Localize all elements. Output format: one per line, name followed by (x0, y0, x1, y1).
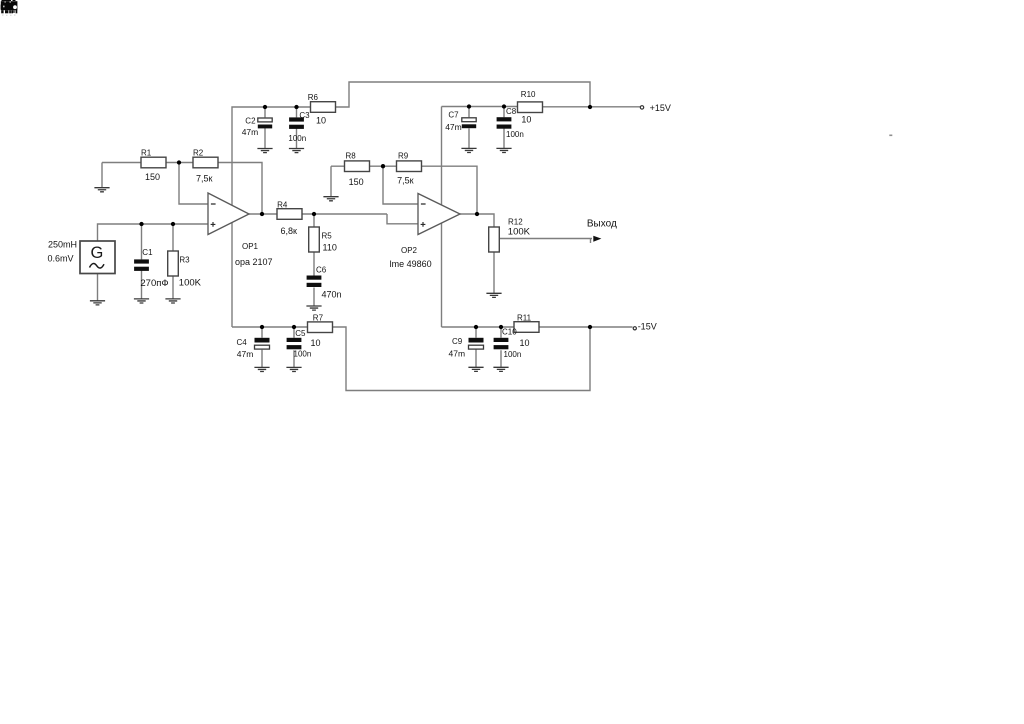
svg-text:G: G (91, 244, 104, 262)
svg-text:250mH: 250mH (48, 239, 77, 249)
svg-text:Выход: Выход (587, 218, 617, 229)
svg-text:47m: 47m (242, 127, 259, 137)
svg-text:R12: R12 (508, 218, 523, 227)
svg-text:100n: 100n (504, 350, 522, 359)
svg-text:R3: R3 (179, 256, 190, 265)
svg-text:10: 10 (520, 338, 530, 348)
svg-text:10: 10 (521, 115, 531, 125)
svg-text:-15V: -15V (638, 321, 657, 331)
svg-text:7,5к: 7,5к (196, 174, 213, 184)
svg-text:R11: R11 (517, 313, 532, 322)
svg-text:47m: 47m (449, 349, 466, 359)
svg-text:C5: C5 (295, 329, 306, 338)
svg-text:C3: C3 (299, 111, 310, 120)
svg-text:150: 150 (145, 172, 160, 182)
svg-text:47m: 47m (237, 349, 254, 359)
svg-text:C6: C6 (316, 266, 327, 275)
svg-text:C9: C9 (452, 337, 463, 346)
svg-text:100n: 100n (506, 130, 524, 139)
svg-text:0.6mV: 0.6mV (48, 253, 74, 263)
svg-text:100n: 100n (294, 350, 312, 359)
svg-text:10: 10 (316, 116, 326, 126)
svg-text:R7: R7 (313, 313, 324, 322)
svg-text:C2: C2 (245, 117, 256, 126)
svg-text:lme 49860: lme 49860 (390, 259, 432, 269)
svg-text:R4: R4 (277, 200, 288, 209)
svg-text:270пФ: 270пФ (140, 278, 168, 289)
svg-text:10: 10 (311, 338, 321, 348)
svg-text:OP2: OP2 (401, 246, 418, 255)
svg-text:+15V: +15V (650, 103, 671, 113)
svg-text:R8: R8 (346, 151, 357, 160)
svg-text:470n: 470n (322, 290, 342, 300)
svg-text:100K: 100K (179, 278, 202, 289)
svg-text:C1: C1 (142, 248, 153, 257)
svg-text:C7: C7 (448, 110, 459, 119)
svg-text:R1: R1 (141, 149, 152, 158)
svg-text:R5: R5 (322, 231, 333, 240)
svg-text:R9: R9 (398, 151, 409, 160)
svg-text:C10: C10 (502, 328, 517, 337)
svg-text:110: 110 (323, 243, 337, 253)
svg-text:C4: C4 (237, 338, 248, 347)
svg-text:100K: 100K (508, 226, 531, 237)
svg-text:6,8к: 6,8к (281, 226, 298, 236)
svg-text:opa 2107: opa 2107 (235, 257, 273, 267)
svg-text:R2: R2 (193, 149, 204, 158)
svg-text:150: 150 (349, 177, 364, 187)
svg-text:C8: C8 (506, 107, 517, 116)
svg-text:OP1: OP1 (242, 242, 259, 251)
svg-text:R10: R10 (521, 90, 536, 99)
svg-text:R6: R6 (308, 93, 319, 102)
svg-text:7,5к: 7,5к (397, 176, 414, 186)
svg-text:100n: 100n (288, 134, 306, 143)
svg-text:47m: 47m (445, 122, 462, 132)
